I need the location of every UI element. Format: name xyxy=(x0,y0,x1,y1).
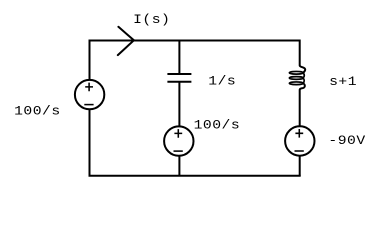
wire middle upper xyxy=(178,40,180,74)
svg-text:1/s: 1/s xyxy=(208,75,236,89)
capacitor C1 1/s xyxy=(167,74,191,82)
wire left lower xyxy=(89,109,91,176)
wire right mid xyxy=(299,90,301,127)
wire right upper xyxy=(299,40,301,66)
voltage source V1 100/s xyxy=(75,80,104,109)
current arrow I(s) xyxy=(118,27,134,55)
voltage source V3 -90V xyxy=(285,126,314,155)
svg-text:100/s: 100/s xyxy=(14,105,61,119)
svg-text:-90V: -90V xyxy=(328,135,366,149)
wire middle lower xyxy=(178,155,180,175)
svg-text:s+1: s+1 xyxy=(329,76,357,90)
wire middle mid xyxy=(178,82,180,127)
wire bottom node 0 xyxy=(89,175,301,177)
wire left upper xyxy=(89,40,91,81)
voltage source V2 100/s xyxy=(164,126,193,155)
wire top node 1 xyxy=(90,40,300,42)
wire right lower xyxy=(299,155,301,176)
inductor L1 s+1 xyxy=(289,65,305,90)
svg-text:100/s: 100/s xyxy=(194,119,241,133)
svg-text:I(s): I(s) xyxy=(133,14,170,28)
